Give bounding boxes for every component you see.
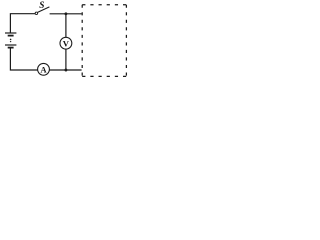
battery cell 2 positive plate bbox=[5, 44, 16, 46]
battery cell 2 negative plate bbox=[8, 47, 14, 49]
switch S blade bbox=[38, 7, 50, 12]
dashed box top edge bbox=[82, 4, 126, 6]
battery cell 1 positive plate bbox=[5, 32, 16, 34]
wire: bottom wire from ammeter to dashed box bbox=[49, 69, 81, 71]
svg-text:V: V bbox=[63, 38, 70, 48]
svg-text:S: S bbox=[39, 1, 44, 11]
wire: left vertical from battery positive up and right to switch bbox=[10, 14, 35, 33]
dashed box bottom edge bbox=[82, 75, 126, 77]
node: top junction bbox=[64, 12, 67, 15]
switch S left contact bbox=[35, 12, 38, 15]
wire: voltmeter branch lower bbox=[65, 49, 67, 70]
dashed box right edge bbox=[125, 5, 127, 77]
node: bottom junction bbox=[64, 69, 67, 72]
svg-text:A: A bbox=[40, 65, 47, 75]
wire: voltmeter branch upper bbox=[65, 14, 67, 38]
wire: top wire from switch to dashed box bbox=[50, 13, 82, 15]
battery cell 1 negative plate bbox=[8, 35, 14, 37]
ammeter A bbox=[38, 63, 50, 75]
battery dots (more cells) bbox=[10, 39, 12, 41]
dashed box left edge bbox=[81, 5, 83, 77]
voltmeter V bbox=[60, 37, 72, 49]
wire: bottom wire left and up to battery negative bbox=[10, 48, 37, 70]
